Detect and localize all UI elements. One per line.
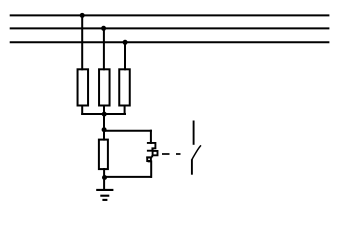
wire tap from L2 xyxy=(103,28,105,69)
contact top lead xyxy=(193,121,195,145)
wire rail to split xyxy=(103,114,105,140)
wire below R4 xyxy=(103,169,105,189)
wire tap from L1 xyxy=(81,15,83,69)
resistor R3 xyxy=(119,69,130,105)
node ground junction xyxy=(102,175,107,180)
resistor R4 xyxy=(99,140,108,170)
resistor R2 xyxy=(99,69,110,105)
bus line L1 xyxy=(10,14,330,16)
node on L3 xyxy=(123,40,128,45)
resistor R1 xyxy=(78,69,89,105)
wire stub below R3 xyxy=(124,106,126,115)
node rail junction xyxy=(102,112,107,117)
bus line L2 xyxy=(10,27,330,29)
wire relay branch right drop xyxy=(150,131,152,143)
contact KK xyxy=(192,121,201,175)
wire stub below R1 xyxy=(81,106,83,115)
wire stub below R2 xyxy=(103,106,105,115)
node branch split xyxy=(102,127,107,132)
mechanical link (dashed) xyxy=(162,153,181,155)
node on L1 xyxy=(80,13,85,18)
thermal overload element KK (square meander) xyxy=(146,143,157,162)
bus line L3 xyxy=(10,41,330,43)
wire tap from L3 xyxy=(124,42,126,69)
node on L2 xyxy=(101,26,106,31)
wire to relay branch top xyxy=(104,130,151,132)
contact blade xyxy=(192,145,201,159)
wire joining rail xyxy=(82,113,125,115)
wire relay branch bottom xyxy=(104,176,151,178)
ground xyxy=(96,190,113,200)
contact bottom lead xyxy=(191,159,193,174)
wire relay branch right rise xyxy=(150,161,152,177)
